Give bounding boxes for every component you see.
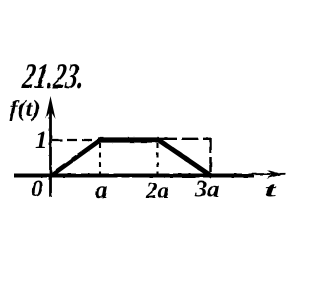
curve flat top	[98, 137, 159, 142]
svg-text:a: a	[95, 177, 108, 204]
dashed level-1 guide right	[160, 138, 211, 140]
svg-text:3a: 3a	[194, 176, 220, 203]
x-axis	[14, 174, 254, 178]
svg-text:2a: 2a	[145, 178, 169, 203]
svg-text:0: 0	[31, 177, 43, 203]
curve rising ramp	[49, 140, 101, 178]
dashed level-1 guide left	[52, 139, 99, 141]
x-axis arrow shaft	[252, 173, 286, 175]
curve falling ramp	[157, 139, 213, 177]
dashed vertical guide at 3a	[209, 138, 212, 175]
svg-text:21.23.: 21.23.	[20, 55, 88, 96]
x-axis arrowhead	[267, 170, 284, 179]
dashed vertical guide at a	[99, 143, 101, 175]
y-axis	[49, 104, 52, 197]
dashed vertical guide at 2a	[156, 143, 158, 175]
svg-text:f(t): f(t)	[10, 96, 41, 121]
y-axis arrowhead	[46, 96, 56, 119]
svg-text:t: t	[265, 178, 278, 201]
svg-text:1: 1	[35, 127, 48, 154]
